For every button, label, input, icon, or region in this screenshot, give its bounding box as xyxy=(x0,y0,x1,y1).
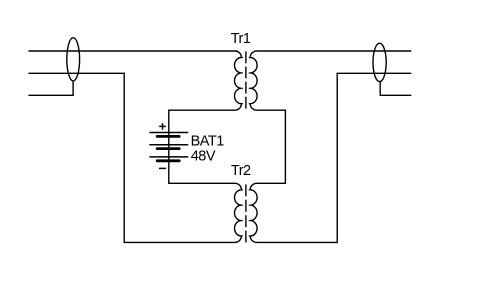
battery BAT1 cell 2 long plate xyxy=(149,144,188,146)
cable marker ellipse left xyxy=(67,38,80,81)
svg-text:BAT1: BAT1 xyxy=(191,134,225,150)
wire right line A (top pair wire) xyxy=(257,50,412,52)
transformer Tr2 left winding xyxy=(234,183,241,242)
transformer Tr1 winding cusp ticks xyxy=(241,58,250,104)
wire right ellipse tail to line C xyxy=(380,81,411,95)
battery BAT1 cell 3 short thick plate xyxy=(157,159,179,162)
transformer Tr2 core (dashed) xyxy=(245,184,247,242)
wire left ellipse tail to line C xyxy=(28,81,73,96)
transformer Tr2 winding cusp ticks xyxy=(241,190,250,236)
transformer Tr1 left winding xyxy=(234,51,241,110)
battery BAT1 minus sign xyxy=(159,167,166,169)
battery BAT1 cell 1 long plate xyxy=(149,132,188,134)
wire left line B down and to Tr2 left winding bottom xyxy=(28,73,235,242)
svg-text:Tr1: Tr1 xyxy=(231,31,251,47)
wire left line A (top pair wire) xyxy=(28,50,235,52)
battery BAT1 plus sign xyxy=(159,123,166,129)
battery BAT1 cell 3 long plate xyxy=(149,156,188,158)
wire Tr2 right winding bottom up to right line B xyxy=(257,73,412,242)
transformer Tr2 right winding xyxy=(250,183,257,242)
transformer Tr1 core (dashed) xyxy=(245,51,247,108)
cable marker ellipse right xyxy=(373,43,386,81)
svg-text:Tr2: Tr2 xyxy=(231,163,251,179)
svg-text:48V: 48V xyxy=(191,149,216,165)
transformer Tr1 right winding xyxy=(250,51,257,110)
battery BAT1 cell 1 short thick plate xyxy=(157,135,179,138)
wire Tr1 left winding bottom through battery stack to Tr2 left winding top xyxy=(169,110,235,183)
wire Tr1 right winding bottom to Tr2 right winding top xyxy=(257,110,286,183)
battery BAT1 cell 2 short thick plate xyxy=(157,147,179,150)
